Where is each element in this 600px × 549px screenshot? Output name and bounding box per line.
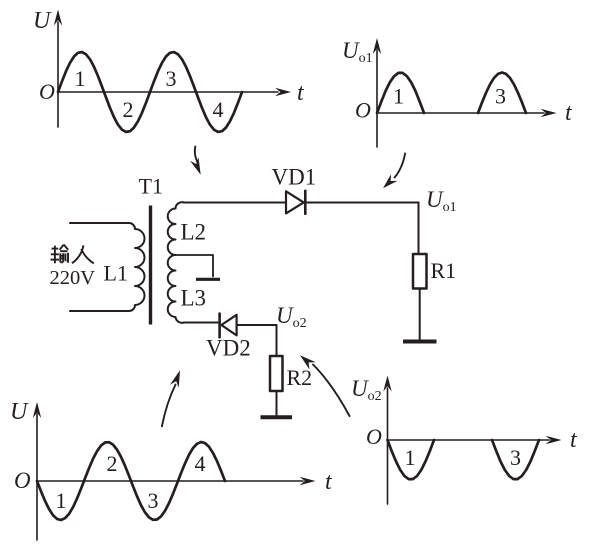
wire: node U_o2 down to R2	[276, 325, 278, 356]
transformer T1 core	[149, 206, 152, 325]
svg-text:O: O	[366, 424, 382, 449]
wire: VD1 cathode to node U_o1 corner	[305, 202, 418, 204]
curved arrow from plot A to transformer	[195, 147, 198, 163]
plot C sine wave 1,2,3,4	[37, 442, 225, 520]
svg-text:3: 3	[495, 84, 506, 109]
diode VD2 cathode bar	[218, 314, 221, 338]
plot A vertical axis arrowhead	[54, 10, 62, 26]
wire: R2 to ground	[276, 391, 278, 416]
svg-text:2: 2	[123, 97, 134, 122]
svg-text:O: O	[14, 468, 31, 493]
plot A vertical axis U	[57, 22, 59, 127]
svg-text:3: 3	[166, 66, 177, 91]
plot C vertical axis U	[36, 414, 38, 540]
diode VD2 triangle	[221, 315, 236, 336]
svg-text:L3: L3	[181, 286, 207, 311]
svg-text:U: U	[33, 8, 52, 34]
plot D negative hump 3	[492, 440, 539, 479]
svg-text:220V: 220V	[50, 267, 96, 289]
wire: secondary top to VD1 anode	[184, 202, 286, 204]
label 输入 (input) drawn as strokes	[51, 245, 94, 264]
svg-text:1: 1	[75, 66, 86, 91]
svg-text:R2: R2	[287, 365, 313, 390]
plot B positive hump 3	[478, 73, 526, 114]
primary winding L1	[70, 223, 145, 311]
svg-text:U: U	[10, 399, 29, 425]
plot D horizontal axis t	[388, 439, 550, 441]
secondary winding L2	[168, 202, 184, 255]
plot D vertical axis arrowhead	[383, 376, 391, 392]
svg-text:2: 2	[107, 451, 118, 476]
plot B vertical axis	[376, 50, 378, 147]
plot D vertical axis	[387, 388, 389, 504]
svg-text:L2: L2	[181, 220, 207, 245]
plot D negative hump 1	[388, 440, 435, 479]
plot C horizontal axis arrowhead	[300, 477, 316, 485]
svg-text:3: 3	[148, 488, 159, 513]
svg-text:O: O	[355, 98, 371, 123]
svg-text:L1: L1	[104, 261, 128, 286]
svg-text:T1: T1	[139, 174, 163, 199]
plot B horizontal axis t	[377, 112, 544, 114]
secondary winding L3	[168, 255, 184, 323]
curved arrow from plot C to transformer	[162, 385, 176, 427]
svg-text:1: 1	[56, 488, 67, 513]
plot A sine wave 1,2,3,4	[58, 52, 242, 132]
svg-text:O: O	[39, 79, 55, 104]
ground under R2	[261, 415, 293, 419]
svg-text:R1: R1	[431, 258, 457, 283]
svg-text:4: 4	[195, 451, 206, 476]
wire: center tap to ground	[176, 255, 214, 277]
wire: secondary bottom to VD2 cathode	[184, 322, 219, 324]
plot A horizontal axis t	[58, 91, 278, 93]
ground under R1	[403, 340, 437, 344]
svg-text:3: 3	[510, 445, 521, 470]
plot C vertical axis arrowhead	[33, 402, 41, 418]
svg-text:1: 1	[393, 84, 404, 109]
plot B horizontal axis arrowhead	[541, 109, 557, 117]
plot B vertical axis arrowhead	[373, 38, 381, 54]
diode VD1 cathode bar	[304, 191, 307, 214]
plot C horizontal axis t	[37, 480, 303, 482]
ground at center tap	[196, 278, 220, 281]
svg-text:1: 1	[405, 445, 416, 470]
curved arrow from plot D to R2	[313, 365, 350, 417]
svg-text:4: 4	[213, 97, 224, 122]
plot A horizontal axis arrowhead	[275, 88, 291, 96]
wire: VD2 anode to node U_o2 corner	[237, 324, 277, 326]
resistor R1	[413, 254, 427, 289]
wire: R1 to ground	[419, 289, 421, 340]
wire: node U_o1 down to R1	[418, 203, 420, 255]
plot B positive hump 1	[377, 73, 424, 113]
svg-text:VD2: VD2	[206, 336, 251, 361]
resistor R2	[270, 356, 283, 391]
curved arrow from plot B to U_o1 wire	[395, 154, 406, 178]
diode VD1 triangle	[286, 191, 304, 213]
svg-text:VD1: VD1	[272, 165, 317, 190]
plot D horizontal axis arrowhead	[546, 436, 562, 444]
